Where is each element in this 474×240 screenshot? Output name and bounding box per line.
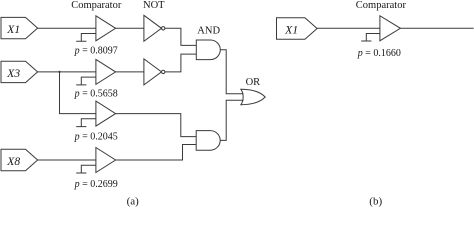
- svg-text:Comparator: Comparator: [71, 0, 122, 11]
- svg-text:AND: AND: [197, 26, 220, 37]
- OR gate U9: [241, 89, 265, 104]
- wire X3 to comparator U2: [38, 71, 96, 73]
- svg-text:X1: X1: [284, 25, 298, 37]
- svg-text:p = 0.5658: p = 0.5658: [74, 89, 118, 100]
- NOT gate U5: [144, 15, 162, 41]
- threshold input of U4: [76, 165, 96, 173]
- comparator U2: [96, 59, 116, 84]
- wire U6 to AND U7 input 2: [165, 54, 196, 72]
- threshold input of U3: [76, 119, 96, 127]
- wire U1 to NOT U5: [116, 27, 144, 29]
- comparator U3: [96, 101, 116, 126]
- svg-text:X3: X3: [6, 68, 20, 80]
- svg-text:NOT: NOT: [143, 0, 165, 11]
- svg-text:X8: X8: [6, 156, 20, 168]
- wire U5 to AND U7 input 1: [165, 28, 196, 45]
- input tag X3: [1, 61, 38, 82]
- wire X8 to comparator U4: [38, 159, 96, 161]
- AND gate U7: [196, 40, 220, 60]
- svg-text:(b): (b): [369, 195, 382, 207]
- wire U8 to OR U9 input 2: [220, 100, 243, 140]
- wire U3 to AND U8 input 1: [116, 114, 197, 137]
- NOT gate U6: [144, 59, 162, 85]
- wire U4 to AND U8 input 2: [116, 145, 197, 161]
- junction node on X3 wire: [58, 71, 60, 73]
- input tag X1: [1, 17, 38, 38]
- wire X1 to comparator U1: [38, 27, 96, 29]
- comparator U4: [96, 148, 116, 173]
- wire U7 to OR U9 input 1: [220, 50, 243, 94]
- comparator U10: [380, 16, 401, 41]
- svg-text:p = 0.2045: p = 0.2045: [74, 132, 118, 143]
- input tag X8: [1, 149, 38, 170]
- threshold input of U10: [361, 34, 380, 42]
- svg-text:OR: OR: [246, 77, 261, 88]
- svg-text:(a): (a): [127, 195, 140, 207]
- svg-text:p = 0.8097: p = 0.8097: [74, 46, 118, 57]
- wire X3 branch to comparator U3: [60, 72, 96, 114]
- input tag X1 (b): [277, 18, 318, 39]
- svg-text:p = 0.1660: p = 0.1660: [357, 48, 401, 59]
- svg-text:Comparator: Comparator: [356, 0, 407, 11]
- wire U2 to NOT U6: [116, 71, 144, 73]
- output wire of U10: [400, 27, 473, 29]
- wire X1 to comparator U10: [317, 27, 380, 29]
- AND gate U8: [196, 131, 220, 151]
- svg-text:p = 0.2699: p = 0.2699: [74, 179, 118, 190]
- comparator U1: [96, 16, 116, 41]
- threshold input of U1: [76, 34, 96, 42]
- threshold input of U2: [76, 77, 96, 85]
- svg-text:X1: X1: [6, 24, 20, 36]
